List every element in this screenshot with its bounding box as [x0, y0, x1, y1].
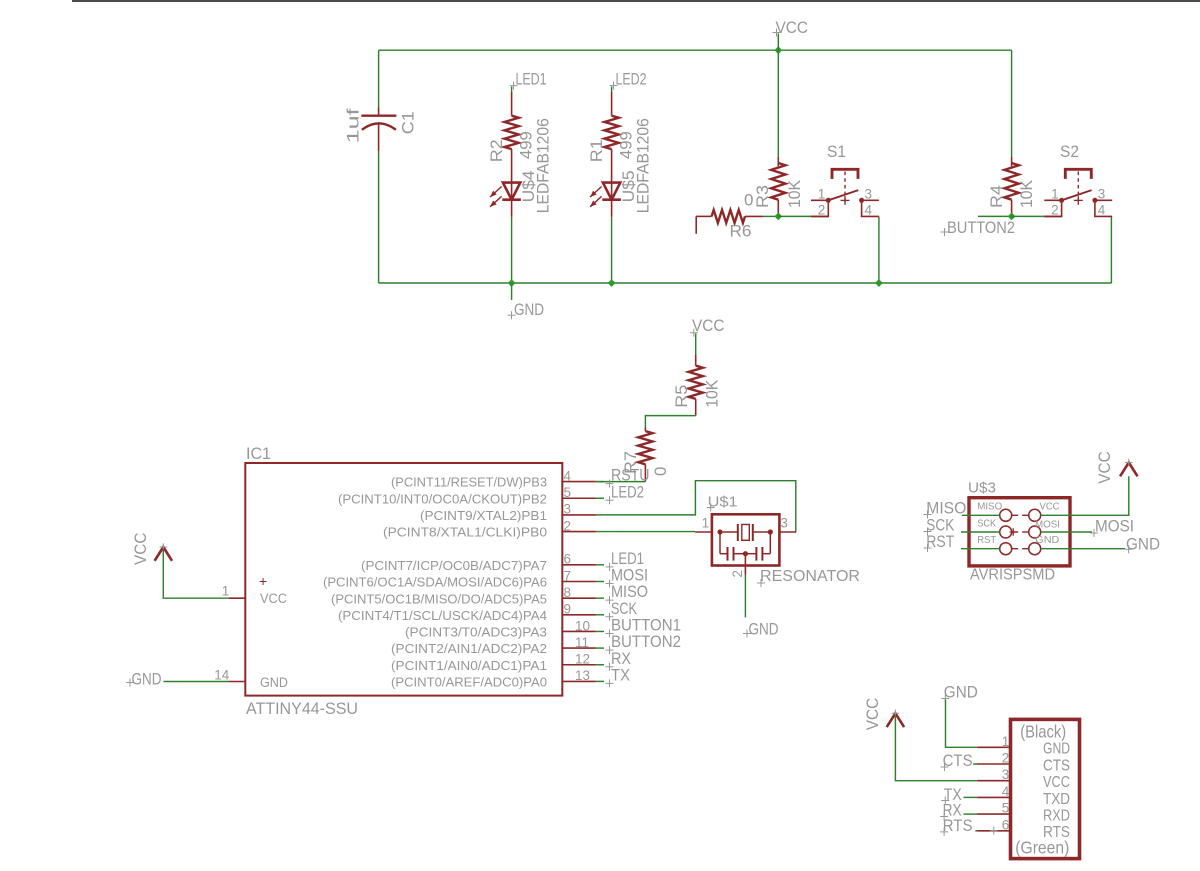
wire MOSI out [1041, 531, 1092, 533]
svg-text:AVRISPSMD: AVRISPSMD [970, 567, 1055, 584]
node TX label [941, 797, 949, 805]
svg-text:IC1: IC1 [246, 444, 271, 463]
svg-text:ATTINY44-SSU: ATTINY44-SSU [246, 699, 358, 718]
svg-text:VCC: VCC [1095, 451, 1114, 484]
svg-text:0: 0 [744, 191, 753, 210]
wire resonator to GND [744, 575, 746, 618]
svg-text:7: 7 [564, 568, 572, 583]
wire LED1 to rail [511, 217, 513, 283]
svg-text:(PCINT7/ICP/OC0B/ADC7)PA7: (PCINT7/ICP/OC0B/ADC7)PA7 [361, 558, 547, 573]
svg-text:R6: R6 [730, 221, 752, 240]
wire SCK [961, 531, 1000, 533]
svg-text:12: 12 [575, 652, 590, 667]
node R3/R6/S1 junction [774, 213, 782, 221]
wire RX stub [964, 813, 978, 815]
pin 14 GND [229, 681, 246, 683]
svg-text:(PCINT10/INT0/OC0A/CKOUT)PB2: (PCINT10/INT0/OC0A/CKOUT)PB2 [338, 491, 547, 506]
svg-text:2: 2 [564, 518, 572, 533]
svg-text:RTS: RTS [1043, 824, 1070, 841]
node VCC top [774, 46, 782, 54]
wire BUTTON2 to junction [978, 215, 1012, 217]
svg-text:MISO: MISO [977, 501, 1002, 513]
node net SCK [596, 614, 604, 616]
svg-text:(PCINT4/T1/SCL/USCK/ADC4)PA4: (PCINT4/T1/SCL/USCK/ADC4)PA4 [338, 608, 547, 623]
svg-text:5: 5 [564, 485, 572, 500]
resistor R2 499 [511, 92, 513, 116]
svg-text:LED2: LED2 [611, 482, 644, 501]
svg-text:RST: RST [977, 534, 997, 546]
node MOSI label [1090, 529, 1098, 537]
svg-text:C1: C1 [399, 111, 418, 134]
svg-text:GND: GND [260, 675, 288, 690]
svg-text:R4: R4 [987, 185, 1006, 208]
svg-text:3: 3 [1002, 767, 1010, 782]
pin 13 (PCINT0/AREF/ADC0)PA0 [562, 680, 596, 682]
pin 5 RXD [977, 813, 1010, 815]
svg-text:3: 3 [865, 186, 873, 201]
wire RST [961, 548, 1000, 550]
wire GND to pin1 [946, 700, 978, 748]
node GND label top [941, 695, 949, 703]
pin 3 VCC [977, 780, 1010, 782]
node RX label [940, 813, 948, 821]
svg-text:10: 10 [575, 618, 590, 633]
svg-text:1: 1 [222, 584, 230, 599]
svg-text:RTS: RTS [943, 816, 973, 835]
wire S2 pin4 to rail [1110, 216, 1112, 283]
svg-text:3: 3 [780, 516, 788, 531]
svg-text:6: 6 [1002, 817, 1010, 832]
wire S1 pin4 down [878, 216, 880, 283]
svg-text:(Black): (Black) [1020, 722, 1066, 742]
pin 6 (PCINT7/ICP/OC0B/ADC7)PA7 [562, 564, 596, 566]
svg-text:U$3: U$3 [968, 480, 996, 497]
svg-text:6: 6 [564, 552, 572, 567]
svg-text:2: 2 [1002, 751, 1010, 766]
svg-text:10K: 10K [785, 179, 804, 208]
svg-text:1: 1 [818, 186, 826, 201]
svg-text:S1: S1 [827, 143, 846, 161]
wire RTS stub [975, 830, 977, 832]
wire VCC stub [695, 334, 697, 356]
resistor R3 10K [777, 157, 779, 166]
svg-text:13: 13 [575, 668, 590, 683]
node net LED1 [596, 564, 604, 566]
internal caps [719, 532, 721, 554]
ground GND under resonator [743, 630, 751, 638]
svg-text:1: 1 [702, 516, 710, 531]
svg-text:R1: R1 [587, 139, 606, 162]
wire CTS stub [973, 763, 978, 765]
node junction [508, 279, 516, 287]
node SCK label [924, 528, 932, 536]
pin 10 (PCINT3/T0/ADC3)PA3 [562, 630, 596, 632]
node junction [608, 279, 616, 287]
node GND label [1125, 545, 1133, 553]
resistor R6 0 [696, 215, 711, 217]
pin 4 TXD [977, 796, 1010, 798]
pin 6 RTS [977, 830, 1010, 832]
node net RSTU [596, 481, 604, 483]
pin 1 VCC [229, 597, 246, 599]
svg-text:VCC: VCC [260, 591, 287, 606]
svg-text:GND: GND [1043, 741, 1070, 758]
node net BUTTON1 [596, 630, 604, 632]
wire TX stub [964, 796, 978, 798]
svg-text:3: 3 [1098, 186, 1106, 201]
svg-text:+: + [259, 573, 267, 589]
svg-text:R2: R2 [487, 139, 506, 162]
svg-text:U$1: U$1 [708, 494, 738, 511]
svg-text:CTS: CTS [943, 751, 973, 770]
origin cross ftdi [990, 827, 998, 835]
svg-text:4: 4 [1098, 203, 1106, 218]
resonator U$1 [712, 514, 780, 565]
svg-text:R5: R5 [672, 385, 691, 408]
wire left rail [378, 50, 380, 107]
pin 8 (PCINT5/OC1B/MISO/DO/ADC5)PA5 [562, 597, 596, 599]
wire right branch to R4 [1011, 50, 1013, 157]
wire bottom GND rail [379, 282, 1112, 284]
svg-text:(PCINT0/AREF/ADC0)PA0: (PCINT0/AREF/ADC0)PA0 [391, 675, 547, 690]
wire GND to pin14 [164, 681, 229, 683]
svg-text:(PCINT5/OC1B/MISO/DO/ADC5)PA5: (PCINT5/OC1B/MISO/DO/ADC5)PA5 [331, 591, 547, 606]
svg-text:1uf: 1uf [344, 108, 363, 143]
wire XTAL1 to resonator pin1 [596, 531, 695, 533]
svg-text:4: 4 [1002, 784, 1010, 799]
svg-text:VCC: VCC [1040, 501, 1060, 513]
wire VCC to R3 [777, 50, 779, 157]
connector FTDI box [1011, 719, 1080, 858]
node net MISO [596, 597, 604, 599]
power VCC symbol right [1120, 463, 1137, 477]
node BUTTON2 net label [941, 228, 949, 236]
svg-text:R3: R3 [753, 185, 772, 208]
svg-text:LED2: LED2 [616, 70, 647, 89]
svg-text:0: 0 [651, 467, 670, 476]
wire MISO [962, 514, 1000, 516]
svg-text:(PCINT6/OC1A/SDA/MOSI/ADC6)PA6: (PCINT6/OC1A/SDA/MOSI/ADC6)PA6 [323, 575, 547, 590]
svg-text:LED1: LED1 [516, 70, 547, 89]
wire junction to S1 [778, 215, 811, 217]
svg-text:10K: 10K [1017, 179, 1036, 208]
node net RX [596, 664, 604, 666]
pin 3 (PCINT9/XTAL2)PB1 [562, 514, 596, 516]
svg-text:BUTTON2: BUTTON2 [947, 218, 1015, 237]
svg-text:1: 1 [1051, 186, 1059, 201]
svg-text:(PCINT1/AIN0/ADC1)PA1: (PCINT1/AIN0/ADC1)PA1 [391, 658, 547, 673]
svg-text:CTS: CTS [1043, 757, 1070, 774]
crystal internals [717, 529, 722, 534]
svg-text:GND: GND [132, 669, 162, 688]
ground GND label left [126, 679, 134, 687]
svg-text:VCC: VCC [1043, 774, 1070, 791]
svg-text:SCK: SCK [977, 518, 996, 530]
svg-text:8: 8 [564, 585, 572, 600]
node CTS label [941, 763, 949, 771]
pin 1 lead [695, 531, 712, 533]
pin 7 (PCINT6/OC1A/SDA/MOSI/ADC6)PA6 [562, 581, 596, 583]
svg-text:GND: GND [514, 300, 544, 319]
node net MOSI [596, 581, 604, 583]
svg-text:RST: RST [926, 532, 954, 551]
svg-text:14: 14 [214, 668, 230, 683]
wire VCC up [1041, 476, 1129, 515]
IC U1 ATTINY44-SSU box [245, 463, 562, 696]
svg-text:TXD: TXD [1043, 791, 1070, 808]
node RTS label [940, 828, 948, 836]
svg-text:S2: S2 [1060, 143, 1079, 161]
svg-text:RESONATOR: RESONATOR [760, 568, 860, 585]
svg-text:GND: GND [1126, 535, 1160, 554]
svg-text:11: 11 [575, 635, 589, 650]
node VCC mid label [690, 329, 698, 337]
svg-text:LEDFAB1206: LEDFAB1206 [634, 118, 653, 213]
wire VCC to pin1 [163, 549, 228, 598]
wire XTAL2 to resonator pin3 [596, 481, 796, 532]
resistor R7 0 [644, 428, 646, 432]
svg-text:4: 4 [865, 203, 873, 218]
capacitor C1 1uf [378, 108, 380, 116]
svg-text:MOSI: MOSI [1035, 518, 1060, 530]
svg-text:4: 4 [564, 468, 572, 483]
wire VCC to pin3 [895, 716, 977, 781]
svg-text:(PCINT3/T0/ADC3)PA3: (PCINT3/T0/ADC3)PA3 [405, 625, 547, 640]
power VCC symbol ftdi [887, 713, 904, 727]
connector U$3 AVRISPSMD [969, 498, 1070, 566]
svg-text:(PCINT2/AIN1/ADC2)PA2: (PCINT2/AIN1/ADC2)PA2 [391, 641, 547, 656]
wire R7 to RST pin [596, 481, 645, 483]
resistor R5 10K [695, 355, 697, 366]
ground GND [511, 283, 513, 300]
node net BUTTON2 [596, 647, 604, 649]
pin 11 (PCINT2/AIN1/ADC2)PA2 [562, 647, 596, 649]
pin 3 lead [779, 531, 796, 533]
switch S2 [1044, 215, 1061, 217]
frame top border [72, 0, 1200, 2]
wire LED2 stub [611, 87, 613, 93]
node MISO label [924, 511, 932, 519]
svg-text:10K: 10K [703, 379, 722, 408]
svg-text:GND: GND [944, 683, 978, 702]
wire junction to S2 [1012, 215, 1045, 217]
pin 5 (PCINT10/INT0/OC0A/CKOUT)PB2 [562, 497, 596, 499]
LED U$5 LEDFAB1206 [603, 183, 620, 200]
svg-text:GND: GND [1035, 534, 1059, 546]
svg-text:3: 3 [564, 502, 572, 517]
pin 2 (PCINT8/XTAL1/CLKI)PB0 [562, 531, 596, 533]
resistor R1 499 [611, 92, 613, 116]
svg-text:2: 2 [818, 203, 826, 218]
svg-text:VCC: VCC [863, 698, 882, 731]
pin 1 GND [977, 746, 1010, 748]
svg-text:2: 2 [730, 570, 745, 578]
pin 9 (PCINT4/T1/SCL/USCK/ADC4)PA4 [562, 614, 596, 616]
svg-text:(PCINT9/XTAL2)PB1: (PCINT9/XTAL2)PB1 [420, 508, 547, 523]
node net TX [596, 680, 604, 682]
svg-text:(PCINT11/RESET/DW)PB3: (PCINT11/RESET/DW)PB3 [391, 475, 547, 490]
wire top VCC rail [379, 49, 1012, 51]
node LED1 net label [510, 82, 518, 90]
pin 4 (PCINT11/RESET/DW)PB3 [562, 481, 596, 483]
node RST label [924, 544, 932, 552]
wire GND out [1041, 548, 1125, 550]
wire LED1 stub [511, 87, 513, 93]
svg-text:(PCINT8/XTAL1/CLKI)PB0: (PCINT8/XTAL1/CLKI)PB0 [383, 525, 547, 540]
LED U$4 LEDFAB1206 [503, 183, 520, 200]
pin 12 (PCINT1/AIN0/ADC1)PA1 [562, 664, 596, 666]
wire LED2 to rail [611, 217, 613, 283]
svg-text:9: 9 [564, 602, 572, 617]
resistor R4 10K [1011, 157, 1013, 166]
node net LED2 [596, 497, 604, 499]
svg-text:TX: TX [611, 665, 630, 684]
wire R5 to R7 [645, 416, 695, 428]
svg-text:GND: GND [749, 620, 779, 639]
svg-text:VCC: VCC [692, 316, 725, 335]
pin 2 CTS [977, 763, 1010, 765]
svg-text:MOSI: MOSI [1095, 517, 1134, 536]
node R4/S2 junction [1008, 213, 1016, 221]
node junction [875, 279, 883, 287]
svg-text:RXD: RXD [1043, 808, 1070, 825]
pin 2 lead down [744, 554, 746, 575]
svg-text:LEDFAB1206: LEDFAB1206 [534, 118, 553, 213]
svg-text:VCC: VCC [776, 18, 809, 37]
svg-text:VCC: VCC [131, 533, 150, 566]
power VCC symbol left [155, 547, 172, 561]
node LED2 net label [610, 82, 618, 90]
switch S1 [811, 215, 828, 217]
svg-text:5: 5 [1002, 801, 1010, 816]
svg-text:1: 1 [1002, 734, 1010, 749]
svg-text:2: 2 [1051, 203, 1059, 218]
